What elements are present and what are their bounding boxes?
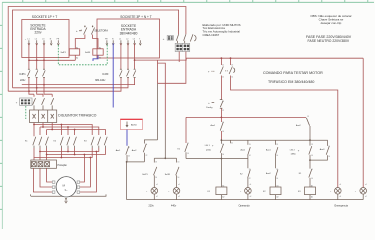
output bus 2 xyxy=(47,148,106,155)
wire coil Sel3F neutral blue xyxy=(93,55,98,61)
blue wire from terminal box xyxy=(126,130,128,146)
svg-text:13: 13 xyxy=(307,116,309,118)
coil K1 xyxy=(216,187,227,195)
svg-text:13: 13 xyxy=(276,144,278,146)
breaker DJP1 pole 2 xyxy=(35,69,38,77)
svg-text:220v: 220v xyxy=(20,79,26,82)
main breaker pole 1 xyxy=(33,94,35,97)
svg-text:14: 14 xyxy=(276,178,278,180)
motor feed 1 xyxy=(80,155,85,183)
bypass contact AUX xyxy=(310,140,329,160)
wire pole2 to emergency lamp xyxy=(231,76,338,188)
rail B xyxy=(186,116,306,118)
svg-text:380/440/480: 380/440/480 xyxy=(120,31,138,35)
main breaker pole 3 xyxy=(51,94,53,97)
wire to bottom rail left end xyxy=(126,162,128,200)
svg-text:13: 13 xyxy=(311,144,313,146)
fan out wires phase C xyxy=(47,123,106,136)
svg-text:Sel3F: Sel3F xyxy=(165,174,171,176)
svg-text:DJP1: DJP1 xyxy=(20,73,27,76)
svg-text:DISJUNTOR TRIFASICO: DISJUNTOR TRIFASICO xyxy=(58,114,96,118)
svg-text:SELETORA: SELETORA xyxy=(94,28,108,32)
svg-text:13: 13 xyxy=(311,169,313,171)
motor bottom line xyxy=(31,195,106,197)
terminal double block xyxy=(175,43,190,51)
split to indicator lamps xyxy=(154,157,176,159)
svg-text:x1: x1 xyxy=(156,184,158,186)
svg-text:22: 22 xyxy=(222,110,224,112)
svg-text:x1: x1 xyxy=(365,184,367,186)
socket box 380/440 xyxy=(97,19,160,58)
overload outputs to motor xyxy=(33,168,52,192)
lamp emergencia 2 xyxy=(360,188,367,195)
contactor K1 pole3 xyxy=(45,137,48,148)
wire loop phase L3 outer xyxy=(8,7,186,92)
contact K1 xyxy=(309,160,312,187)
contact aux left xyxy=(143,144,146,162)
wire 380 L2 xyxy=(127,43,129,69)
motor feed 3 xyxy=(80,152,97,193)
junction dots on rails xyxy=(43,84,45,86)
stub below block xyxy=(178,52,180,63)
motor feed 2 xyxy=(80,158,91,188)
fan out wires phase A xyxy=(34,123,92,136)
svg-text:21: 21 xyxy=(222,101,224,103)
lamp emergencia 1 xyxy=(335,188,342,195)
contactor K2 pole3 xyxy=(73,137,76,148)
contactor K3 pole3 xyxy=(104,137,107,148)
svg-text:x2: x2 xyxy=(250,196,252,198)
plug arc contact xyxy=(190,34,193,41)
socket box 220V xyxy=(22,20,69,58)
coil Sel3F xyxy=(93,49,103,55)
tap line 220V to coil xyxy=(29,59,75,61)
svg-text:14: 14 xyxy=(276,155,278,157)
breaker DJP1 pole 3 xyxy=(43,69,46,77)
svg-text:TRIFASICO EM 380/440/480: TRIFASICO EM 380/440/480 xyxy=(268,80,314,84)
contact SelP1 xyxy=(154,167,157,188)
wire L2 from socket xyxy=(36,43,38,69)
branch coil K2 xyxy=(275,140,278,187)
breaker DJP1 pole 1 xyxy=(27,69,30,77)
breaker box disjuntor xyxy=(30,110,57,123)
lamp 440v xyxy=(173,188,180,195)
wire selector pole1 to coil SelP1 xyxy=(75,35,85,49)
svg-text:220v: 220v xyxy=(149,204,155,207)
frame left line xyxy=(1,2,3,229)
junction dot L3 tap to control rail xyxy=(134,59,136,61)
selector pole 2 xyxy=(92,26,93,27)
wires DJP1 to rails xyxy=(29,78,52,94)
svg-text:SOCKETE 1P + T: SOCKETE 1P + T xyxy=(32,15,58,19)
svg-text:220v: 220v xyxy=(35,31,42,35)
breaker DJ3F pole 3 xyxy=(133,69,136,77)
svg-text:22: 22 xyxy=(222,77,224,79)
svg-text:21: 21 xyxy=(222,65,224,67)
contactor K1 pole2 xyxy=(39,137,42,148)
svg-text:13: 13 xyxy=(155,162,157,164)
output bus 1 xyxy=(40,148,99,152)
svg-text:(380): (380) xyxy=(291,154,296,156)
svg-text:LIG 1: LIG 1 xyxy=(205,145,211,147)
contact AUX1 xyxy=(220,122,223,130)
wire to coil K1 xyxy=(220,159,222,188)
svg-text:13: 13 xyxy=(249,144,251,146)
frame ruler ticks top xyxy=(23,0,368,2)
selector pole 1 xyxy=(84,26,85,27)
terminal box with red top xyxy=(120,119,142,129)
rail E xyxy=(186,158,248,160)
wire loop phase L2 xyxy=(13,10,179,88)
svg-text:COMANDO PARA TESTAR MOTOR: COMANDO PARA TESTAR MOTOR xyxy=(263,71,323,75)
wire branch seletora lamps xyxy=(158,63,166,130)
socket 380 terminals xyxy=(107,40,140,43)
svg-text:13: 13 xyxy=(222,122,224,124)
svg-text:14: 14 xyxy=(311,155,313,157)
svg-text:x1: x1 xyxy=(178,184,180,186)
wire loop phase L2 bottom xyxy=(13,78,129,88)
svg-text:Proteção: Proteção xyxy=(58,164,68,167)
svg-text:21: 21 xyxy=(249,169,251,171)
wire 380 L1 xyxy=(120,43,122,69)
svg-text:SelP1: SelP1 xyxy=(142,174,148,176)
svg-text:CREA 19467: CREA 19467 xyxy=(203,33,220,37)
wire L1 from socket xyxy=(28,43,30,69)
svg-text:13: 13 xyxy=(276,169,278,171)
svg-text:21: 21 xyxy=(231,143,233,145)
svg-text:14: 14 xyxy=(231,77,233,79)
svg-text:Sel3F: Sel3F xyxy=(85,52,91,54)
breaker DJ3F pole 1 xyxy=(119,69,122,77)
svg-text:13: 13 xyxy=(222,144,224,146)
svg-text:3~: 3~ xyxy=(65,188,68,192)
svg-text:x2: x2 xyxy=(178,196,180,198)
svg-text:+: + xyxy=(163,37,165,41)
wire 380 L3 xyxy=(134,43,136,69)
svg-text:21: 21 xyxy=(128,147,130,149)
svg-text:AUX0: AUX0 xyxy=(131,124,137,127)
main breaker pole 2 xyxy=(42,94,44,97)
fan out wires phase B xyxy=(40,123,99,136)
contactor K1 pole1 xyxy=(33,125,35,137)
svg-text:DJ3F: DJ3F xyxy=(103,73,109,76)
svg-text:22: 22 xyxy=(128,156,130,158)
svg-text:LIG 2: LIG 2 xyxy=(290,149,296,151)
branch K1 left xyxy=(185,117,187,143)
svg-text:440v: 440v xyxy=(171,204,177,207)
wire selector pole2 to coil Sel3F xyxy=(93,35,98,49)
wire loop phase L3 bottom xyxy=(8,78,121,91)
frame top line xyxy=(2,1,374,3)
wire rail phase L1 xyxy=(22,78,135,85)
wire drop to aux contact xyxy=(144,140,157,144)
lamp operando xyxy=(245,188,252,195)
svg-text:Emergencia: Emergencia xyxy=(335,204,349,207)
svg-text:14: 14 xyxy=(155,177,157,179)
svg-text:22: 22 xyxy=(146,155,148,157)
svg-text:22: 22 xyxy=(249,178,251,180)
svg-text:FASE NEUTRO 220V/380V: FASE NEUTRO 220V/380V xyxy=(308,39,350,43)
selector control pole 1 xyxy=(221,57,223,59)
svg-text:14: 14 xyxy=(187,153,189,155)
coil SelP1 xyxy=(69,49,79,55)
svg-text:13: 13 xyxy=(178,162,180,164)
small connector block xyxy=(167,36,173,41)
motor M1 xyxy=(56,177,76,197)
wire coil SelP1 down to tap line xyxy=(74,55,76,60)
svg-text:13: 13 xyxy=(231,65,233,67)
wire pole1 down xyxy=(220,76,222,100)
svg-text:14: 14 xyxy=(328,156,330,158)
socket 220V terminals xyxy=(29,40,58,43)
svg-text:desejar con-trip: desejar con-trip xyxy=(321,21,342,25)
earth dashed wire xyxy=(58,43,107,65)
output bus 3 xyxy=(34,148,92,158)
breaker DJ3F pole 2 xyxy=(127,69,130,77)
svg-text:x2: x2 xyxy=(156,196,158,198)
svg-text:14: 14 xyxy=(249,155,251,157)
svg-text:380-440v: 380-440v xyxy=(95,79,106,82)
svg-text:SOCKETE 3P + N + T: SOCKETE 3P + N + T xyxy=(120,15,151,19)
control top rail xyxy=(135,58,364,60)
bottom rail xyxy=(127,199,364,201)
contactor K2 pole1 xyxy=(60,137,63,148)
overload relay F1 xyxy=(31,160,57,168)
motor terminals left xyxy=(52,181,55,183)
contact aux right end xyxy=(306,118,310,140)
svg-text:SelP1: SelP1 xyxy=(61,52,67,54)
wire rail left drop with jog xyxy=(157,60,159,83)
svg-text:x2: x2 xyxy=(365,196,367,198)
block pins xyxy=(178,41,185,44)
svg-text:Operando: Operando xyxy=(239,204,251,207)
frame ruler ticks left xyxy=(0,25,2,209)
rail D xyxy=(221,139,310,141)
svg-text:14: 14 xyxy=(222,131,224,133)
wire L3 from socket xyxy=(43,43,45,69)
svg-text:Deslig: Deslig xyxy=(206,107,213,109)
branch LIG2 coil K3 xyxy=(309,139,311,141)
svg-text:13: 13 xyxy=(187,143,189,145)
coil K3 xyxy=(305,187,316,195)
svg-text:x1: x1 xyxy=(250,184,252,186)
contactor K3 pole2 xyxy=(98,137,101,148)
selector control pole 2 xyxy=(230,57,232,59)
dashed stub below plug xyxy=(25,106,27,119)
wires to overload xyxy=(34,152,47,161)
plug blades xyxy=(176,34,186,41)
wire right side down to lamp xyxy=(362,58,364,187)
svg-text:21: 21 xyxy=(146,144,148,146)
svg-text:14: 14 xyxy=(311,178,313,180)
svg-text:x2: x2 xyxy=(340,196,342,198)
blue neutral wire 380 xyxy=(112,43,114,107)
contact aux blue branch xyxy=(126,146,129,162)
svg-text:x1: x1 xyxy=(340,184,342,186)
svg-text:14: 14 xyxy=(222,154,224,156)
terminal stub on rail D xyxy=(229,140,231,143)
svg-text:13: 13 xyxy=(328,146,330,148)
svg-text:14: 14 xyxy=(178,177,180,179)
branch lamp operando xyxy=(248,140,251,158)
contact Sel3F xyxy=(176,167,179,188)
lamp 220v xyxy=(151,188,158,195)
motor earth stub xyxy=(65,198,67,200)
jumper to bottom rail xyxy=(127,161,145,163)
contactor K2 pole2 xyxy=(67,137,70,148)
svg-text:(220): (220) xyxy=(206,150,211,152)
motor terminals right xyxy=(77,181,80,183)
contactor K3 pole1 xyxy=(91,137,94,148)
coil K2 xyxy=(270,187,281,195)
